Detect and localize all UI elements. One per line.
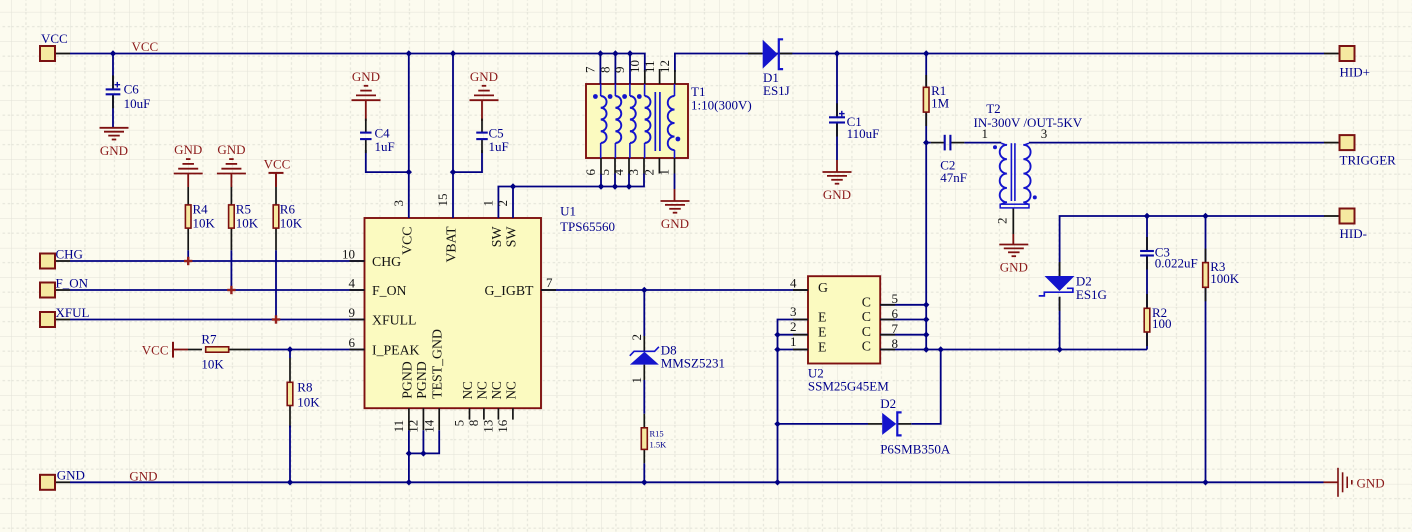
svg-text:GND: GND [823,187,851,202]
svg-text:16: 16 [495,419,510,433]
svg-text:8: 8 [598,67,613,74]
svg-text:4: 4 [611,169,626,176]
svg-text:I_PEAK: I_PEAK [372,342,420,357]
svg-text:1: 1 [629,377,644,384]
svg-text:1: 1 [790,334,797,349]
svg-text:E: E [818,339,826,354]
svg-text:PGND: PGND [414,361,429,399]
svg-text:GND: GND [129,468,157,483]
svg-text:D2: D2 [880,396,896,411]
svg-text:10uF: 10uF [124,96,151,111]
svg-text:HID+: HID+ [1340,64,1370,79]
svg-text:NC: NC [503,381,518,400]
svg-text:C: C [862,309,871,324]
svg-text:R6: R6 [280,201,296,216]
svg-text:R4: R4 [193,201,209,216]
svg-text:GND: GND [470,69,498,84]
svg-text:C: C [862,294,871,309]
svg-text:4: 4 [790,276,797,291]
svg-text:13: 13 [481,420,496,433]
svg-text:15: 15 [435,194,450,207]
svg-text:5: 5 [892,291,899,306]
svg-text:100: 100 [1152,316,1172,331]
svg-text:SSM25G45EM: SSM25G45EM [808,378,889,393]
svg-text:1: 1 [657,169,672,176]
svg-text:PGND: PGND [399,361,414,399]
svg-text:E: E [818,309,826,324]
svg-text:VBAT: VBAT [444,226,459,263]
svg-text:1M: 1M [931,96,950,111]
svg-text:2: 2 [642,169,657,176]
svg-text:2: 2 [495,200,510,207]
svg-text:MMSZ5231: MMSZ5231 [661,355,725,370]
svg-text:1: 1 [481,200,496,207]
svg-text:10: 10 [627,60,642,73]
svg-text:2: 2 [790,319,797,334]
svg-text:P6SMB350A: P6SMB350A [880,442,951,457]
svg-text:1.5K: 1.5K [650,439,668,449]
svg-text:GND: GND [1000,260,1028,275]
svg-text:10K: 10K [193,216,216,231]
svg-text:F_ON: F_ON [372,283,407,298]
svg-text:6: 6 [583,169,598,176]
svg-text:CHG: CHG [56,247,83,262]
svg-text:ES1G: ES1G [1076,287,1107,302]
svg-text:VCC: VCC [399,227,414,255]
svg-text:VCC: VCC [264,156,291,171]
svg-text:8: 8 [466,420,481,427]
svg-text:U1: U1 [560,204,576,219]
svg-text:C6: C6 [124,82,140,97]
svg-text:12: 12 [657,60,672,73]
svg-text:9: 9 [612,67,627,74]
svg-text:GND: GND [57,468,85,483]
svg-text:SW: SW [489,227,504,248]
svg-text:3: 3 [391,200,406,207]
svg-text:XFUL: XFUL [56,305,90,320]
svg-text:5: 5 [597,169,612,176]
svg-text:10K: 10K [201,357,224,372]
svg-text:11: 11 [642,60,657,73]
svg-text:TEST_GND: TEST_GND [430,329,445,399]
svg-text:G_IGBT: G_IGBT [484,283,534,298]
svg-text:2: 2 [629,334,644,341]
svg-text:VCC: VCC [142,343,169,358]
svg-text:9: 9 [349,305,356,320]
svg-text:GND: GND [100,143,128,158]
svg-text:100K: 100K [1210,271,1240,286]
svg-text:6: 6 [892,306,899,321]
svg-text:G: G [818,280,828,295]
svg-text:GND: GND [1357,475,1385,490]
svg-text:8: 8 [892,336,899,351]
svg-text:CHG: CHG [372,254,401,269]
svg-text:10K: 10K [280,216,303,231]
svg-text:10K: 10K [297,395,320,410]
svg-text:VCC: VCC [132,39,159,54]
svg-text:1uF: 1uF [489,139,509,154]
svg-text:1: 1 [982,126,989,141]
svg-text:VCC: VCC [41,31,68,46]
svg-text:C: C [862,324,871,339]
svg-text:GND: GND [352,69,380,84]
svg-text:R5: R5 [236,201,251,216]
svg-text:14: 14 [421,419,436,433]
svg-text:GND: GND [217,142,245,157]
svg-text:C: C [862,339,871,354]
svg-text:TRIGGER: TRIGGER [1340,152,1397,167]
svg-text:3: 3 [1041,126,1048,141]
svg-text:ES1J: ES1J [763,83,790,98]
svg-text:1:10(300V): 1:10(300V) [691,98,752,113]
svg-text:GND: GND [661,216,689,231]
svg-text:R7: R7 [201,332,217,347]
svg-text:0.022uF: 0.022uF [1155,256,1198,271]
svg-text:10K: 10K [236,216,259,231]
svg-text:110uF: 110uF [847,126,880,141]
svg-text:10: 10 [342,246,355,261]
svg-text:R8: R8 [297,380,312,395]
svg-text:2: 2 [995,218,1010,225]
svg-text:SW: SW [504,227,519,248]
svg-text:T2: T2 [986,101,1000,116]
svg-text:5: 5 [452,420,467,427]
svg-text:GND: GND [174,142,202,157]
svg-text:3: 3 [790,304,797,319]
svg-text:3: 3 [626,169,641,176]
svg-text:XFULL: XFULL [372,312,416,327]
svg-text:7: 7 [546,275,553,290]
svg-text:6: 6 [349,335,356,350]
svg-text:TPS65560: TPS65560 [560,219,615,234]
svg-text:12: 12 [406,420,421,433]
svg-text:R15: R15 [650,428,664,438]
svg-text:NC: NC [460,381,475,400]
svg-text:F_ON: F_ON [56,276,89,291]
svg-text:11: 11 [391,420,406,433]
svg-text:7: 7 [892,321,899,336]
svg-text:1uF: 1uF [375,139,395,154]
svg-text:7: 7 [583,66,598,73]
svg-text:IN-300V /OUT-5KV: IN-300V /OUT-5KV [974,115,1083,130]
svg-text:4: 4 [349,275,356,290]
svg-text:HID-: HID- [1340,226,1367,241]
svg-text:NC: NC [489,381,504,400]
svg-text:47nF: 47nF [940,170,967,185]
svg-text:NC: NC [474,381,489,400]
svg-text:E: E [818,325,826,340]
